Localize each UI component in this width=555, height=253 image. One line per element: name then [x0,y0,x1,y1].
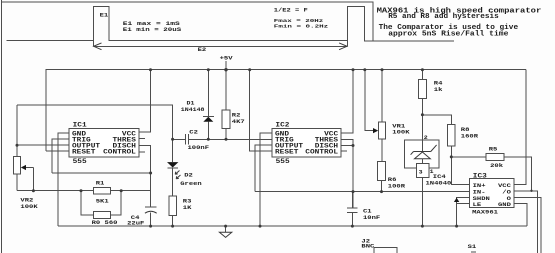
svg-text:100nF: 100nF [188,145,210,151]
svg-text:VR1: VR1 [392,123,405,129]
note 1/E2 frequency [274,7,309,13]
wire IC2 GND [260,133,272,226]
wire IC1 THRES stub [139,137,145,139]
svg-text:IC4: IC4 [433,174,446,180]
capacitor C2 [185,129,209,151]
wire IC1 GND [58,133,69,226]
svg-text:E1 max = 1mS: E1 max = 1mS [123,20,180,26]
svg-text:20k: 20k [490,163,503,169]
svg-text:approx 5nS Rise/Fall time: approx 5nS Rise/Fall time [388,30,508,38]
svg-text:R6: R6 [388,177,397,183]
svg-text:RESET: RESET [275,149,298,156]
resistor R8 [448,125,479,157]
svg-text:160R: 160R [461,133,478,139]
svg-text:R2: R2 [232,112,241,118]
capacitor C4 [127,207,157,226]
svg-text:R5 and R8 add hysteresis: R5 and R8 add hysteresis [388,13,499,21]
svg-text:RESET: RESET [72,149,95,156]
wire IC1 TRIG [52,139,69,173]
svg-text:VCC: VCC [498,182,511,188]
wire IC2 OUTPUT [255,145,272,191]
svg-text:O: O [507,195,511,201]
note MAX961 comparator [377,7,542,15]
svg-text:MAX961: MAX961 [472,209,498,215]
potentiometer VR2 [14,105,38,210]
svg-text:E2: E2 [198,47,207,53]
wire IC3 /O output [514,191,537,253]
diode D1 [181,70,214,140]
wire IC1 VCC riser [139,70,151,133]
svg-text:D2: D2 [184,172,193,178]
svg-text:CONTROL: CONTROL [103,149,136,156]
wire IC1 RESET from rail [46,150,69,152]
capacitor C1 [347,192,380,227]
wire comparator input line [255,191,469,193]
wire timing network line [17,190,151,192]
svg-text:1N4148: 1N4148 [181,107,205,113]
svg-text:Fmin = 0.2Hz: Fmin = 0.2Hz [274,23,329,29]
wire C2 node line [173,138,272,140]
svg-text:S1: S1 [468,244,477,250]
svg-text:IN+: IN+ [473,182,486,188]
wire R4 to R8 elbow [422,115,451,125]
resistor R9 560 [81,191,121,226]
svg-text:100K: 100K [20,204,37,210]
resistor R1 [94,180,111,204]
ground [219,226,231,237]
svg-text:555: 555 [276,159,290,166]
resistor R3 [169,196,192,226]
resistor R2 [222,70,245,140]
connector J2 BNC [361,238,397,253]
potentiometer VR1 [365,70,410,162]
E2 dimension arrow line [93,43,347,50]
shunt reference IC4 [404,115,451,226]
svg-text:SHDN: SHDN [473,195,490,201]
comparator IC3 MAX961 [469,173,514,215]
svg-text:E1 min = 20uS: E1 min = 20uS [123,27,182,33]
svg-text:5K1: 5K1 [96,198,109,204]
svg-text:10nF: 10nF [363,215,380,221]
wire IC1 DISCH [139,146,151,173]
svg-text:4K7: 4K7 [232,118,245,124]
svg-text:R8: R8 [461,126,470,132]
svg-text:+5V: +5V [220,55,233,61]
op-amp IC2 555 timer [272,122,341,165]
op-amp IC1 555 timer [69,122,139,165]
switch S1 [468,244,477,252]
wire IC2 CONTROL stub [341,150,347,152]
node E1 label [100,12,109,18]
LED D2 [167,162,202,196]
wire IC3 SHDN/LE to ground [454,197,470,226]
resistor R6 [378,162,406,192]
svg-text:R1: R1 [96,180,105,186]
svg-text:1k: 1k [434,87,443,93]
resistor R4 [419,70,443,115]
svg-text:GND: GND [498,202,511,208]
wire ground rail [58,225,527,227]
svg-text:/O: /O [502,189,511,195]
wire IC2 RESET riser [250,70,272,151]
svg-text:2: 2 [424,134,428,140]
svg-text:C2: C2 [189,129,198,135]
svg-text:1N4040: 1N4040 [426,180,452,186]
wire IC2 THRES [341,139,353,145]
svg-text:100R: 100R [388,183,405,189]
wire IC2 DISCH [341,146,353,208]
svg-text:R5: R5 [489,146,498,152]
svg-text:555: 555 [73,159,87,166]
svg-text:Fmax = 20Hz: Fmax = 20Hz [274,18,324,24]
wire IC3 VCC riser [469,70,526,185]
svg-text:1K: 1K [183,205,192,211]
svg-text:1/E2 = F: 1/E2 = F [274,7,309,13]
svg-text:E1: E1 [100,12,109,18]
svg-text:C1: C1 [363,208,372,214]
wire TRIG-THRES tie line [52,173,150,207]
svg-text:R4: R4 [434,80,443,86]
note E1 max/min [123,20,180,26]
svg-text:100K: 100K [392,129,409,135]
wire IC3 GND [514,204,527,227]
wire +5V rail [46,70,526,151]
node E2 label [198,47,207,53]
svg-text:R3: R3 [183,198,192,204]
wire IC2 VCC riser [341,70,353,134]
svg-text:BNC: BNC [361,243,374,249]
svg-text:3: 3 [419,169,423,175]
svg-text:22uF: 22uF [127,220,144,226]
svg-text:CONTROL: CONTROL [305,149,338,156]
wire output node to LED branch [17,105,173,162]
svg-text:IN-: IN- [473,189,486,195]
node +5V [220,55,233,69]
svg-text:D1: D1 [187,100,195,106]
waveform E1/E2 pulse train [7,7,454,47]
svg-text:VR2: VR2 [20,197,33,203]
wire IC3 IN+ [451,157,469,184]
svg-text:R0 560: R0 560 [92,220,118,226]
svg-text:LE: LE [473,202,482,208]
wire IC1 OUTPUT [17,144,69,146]
resistor R5 [451,146,531,191]
wire IC1 CONTROL stub [139,151,145,153]
wire IC3 O output [514,197,541,253]
svg-text:Green: Green [180,181,202,187]
